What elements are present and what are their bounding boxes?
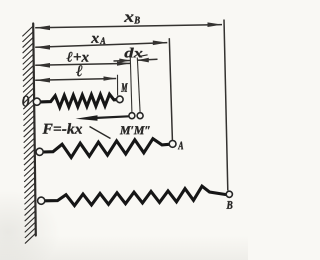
- tail of kx script x: [90, 127, 111, 139]
- force arrow F=-kx: [76, 115, 129, 121]
- label B: [226, 201, 232, 209]
- dimension l+x line: [35, 63, 130, 65]
- dimension l line: [35, 79, 116, 81]
- node A circle: [169, 141, 176, 148]
- label x_B (B): [134, 17, 140, 24]
- label M'M'': [120, 126, 150, 134]
- wall: [33, 24, 36, 236]
- label A: [178, 142, 183, 150]
- spring 1 (natural length l, O to M): [41, 94, 117, 107]
- label M: [121, 83, 128, 91]
- spring 3 (stretched to B): [45, 186, 226, 205]
- label O: [22, 96, 29, 107]
- vertical line M'': [137, 58, 140, 113]
- wall hatching: [23, 26, 36, 243]
- node M circle: [117, 96, 124, 103]
- node M' circle: [129, 113, 135, 119]
- node O circle: [33, 98, 40, 105]
- dimension x_B line: [35, 25, 222, 28]
- vertical line M': [130, 58, 132, 113]
- label x_A (A): [100, 37, 106, 44]
- dimension dx: [114, 60, 131, 63]
- dimension x_A line: [35, 43, 167, 48]
- label l+x: [67, 52, 89, 62]
- label l: [76, 65, 82, 76]
- paper background: [0, 0, 248, 260]
- tick at M (end of l): [117, 75, 119, 96]
- wall hinge row3: [38, 197, 45, 204]
- hinge circles: [33, 96, 232, 204]
- vertical extension line to B: [224, 20, 228, 191]
- label x_B (x): [124, 15, 134, 22]
- vertical extension line to A: [169, 38, 172, 140]
- label dx: [125, 48, 143, 58]
- tail of dx script x: [141, 55, 148, 56]
- label F=-kx: [43, 123, 83, 133]
- node B circle: [226, 191, 232, 197]
- wall hinge row2: [36, 148, 43, 155]
- spring 2 (stretched to A): [43, 139, 169, 158]
- node M'' circle: [137, 113, 143, 119]
- label x_A (x): [91, 36, 99, 43]
